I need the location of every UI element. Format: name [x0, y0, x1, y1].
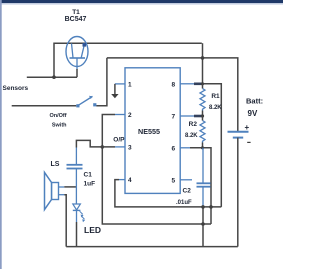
wire LED bottom to rail — [76, 222, 78, 247]
svg-text:3: 3 — [128, 145, 132, 152]
wire switch right to +V rail — [96, 58, 107, 106]
label - — [247, 142, 250, 143]
node B — [209, 205, 213, 209]
svg-text:8.2K: 8.2K — [185, 133, 198, 139]
node junction pin3 wire crossing — [101, 145, 105, 149]
svg-text:+: + — [245, 123, 250, 132]
svg-text:7: 7 — [172, 114, 176, 121]
svg-text:.01uF: .01uF — [176, 200, 192, 206]
switch S1 On/Off — [76, 96, 96, 108]
capacitor C1 — [67, 148, 83, 204]
svg-text:2: 2 — [128, 112, 132, 119]
svg-text:Swith: Swith — [52, 122, 67, 128]
svg-text:6: 6 — [172, 145, 176, 152]
speaker LS — [45, 172, 65, 209]
svg-text:LS: LS — [51, 161, 60, 168]
wire pin4 to line1 — [119, 179, 125, 181]
bottom rail — [66, 246, 238, 248]
svg-text:O/P: O/P — [113, 137, 125, 144]
node junction sensors/vertical — [52, 75, 56, 79]
wire collector top: transistor to right column — [54, 43, 202, 77]
wire pin8 — [180, 83, 196, 85]
svg-text:LED: LED — [84, 225, 101, 235]
node C — [201, 222, 205, 226]
transistor Q1 base lead (blue inside, dark below) — [76, 58, 78, 70]
svg-text:5: 5 — [172, 177, 176, 184]
wire switch left — [12, 105, 77, 107]
LED D1 — [73, 204, 85, 222]
svg-text:C1: C1 — [84, 172, 93, 179]
op-amp U1 NE555 box — [125, 68, 180, 194]
wire sensors horizontal — [27, 76, 77, 78]
svg-text:4: 4 — [128, 177, 132, 184]
wire pin3 O/P with bump to C1 — [115, 146, 125, 148]
svg-text:NE555: NE555 — [138, 127, 160, 136]
ground arrow — [111, 94, 118, 98]
wire pin7 — [180, 115, 196, 117]
svg-text:On/Off: On/Off — [49, 113, 66, 119]
battery B1 — [228, 132, 249, 247]
svg-text:Sensors: Sensors — [3, 85, 29, 92]
wire pin1 to ground arrow — [115, 83, 125, 85]
wire C2 column down to bottom rail — [202, 207, 204, 247]
svg-text:9V: 9V — [248, 109, 258, 118]
svg-text:R2: R2 — [189, 121, 198, 128]
svg-text:1: 1 — [128, 82, 132, 89]
svg-text:C2: C2 — [183, 188, 192, 195]
wire pin5 stub — [180, 179, 192, 181]
wire pin2 to bottom line2 — [115, 114, 125, 116]
node A — [201, 205, 205, 209]
svg-text:8.2K: 8.2K — [209, 105, 222, 111]
svg-text:1uF: 1uF — [84, 181, 96, 188]
wire speaker top to C1 bottom — [64, 186, 76, 188]
node junction rail/right column — [201, 56, 205, 60]
svg-text:R1: R1 — [211, 93, 220, 100]
transistor T1 BC547 — [66, 37, 88, 67]
svg-text:Batt:: Batt: — [246, 97, 263, 106]
wire vertical right column from top wire to R1 top — [202, 43, 204, 84]
capacitor C2 — [197, 148, 211, 207]
wire R1 top tee to line1 — [203, 84, 222, 207]
resistor R1 — [200, 84, 205, 116]
resistor R2 — [200, 116, 205, 148]
node junction R2/C2/pin6 — [201, 146, 204, 149]
wire speaker bottom to rail — [64, 195, 66, 247]
wire +V rail to battery — [107, 58, 238, 131]
svg-text:BC547: BC547 — [65, 16, 87, 23]
svg-text:8: 8 — [172, 82, 176, 89]
wire pin6 to vertical 211 — [180, 147, 190, 149]
